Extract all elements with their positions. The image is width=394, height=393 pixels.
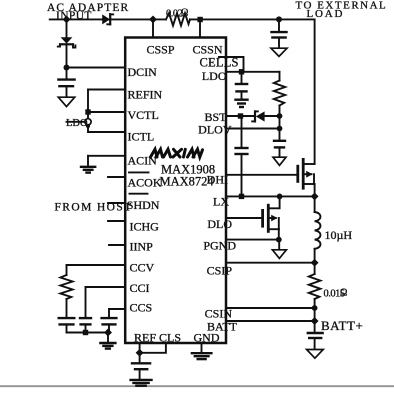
IC pin labels (right) xyxy=(198,69,237,334)
wire: REFIN/VCTL/ICTL tie bar xyxy=(88,90,125,133)
overline ACOK xyxy=(129,171,149,173)
ground (open triangle) below load cap xyxy=(271,48,287,56)
wire: CSIN xyxy=(226,307,315,309)
capacitor C-DLOV xyxy=(273,141,286,157)
capacitor C-REF xyxy=(131,353,152,380)
node: DCIN junction xyxy=(64,65,70,71)
wire: CSIP xyxy=(226,262,315,264)
label TO EXTERNAL LOAD xyxy=(296,0,388,20)
svg-text:ICHG: ICHG xyxy=(130,220,160,234)
svg-text:DCIN: DCIN xyxy=(128,65,158,79)
ground (earth bars) below C-LDO xyxy=(234,100,248,107)
wire: IINP stub xyxy=(109,244,125,246)
wire: CSSP drop xyxy=(152,19,154,37)
node: bus junction CCI xyxy=(83,330,88,335)
svg-text:CCV: CCV xyxy=(130,261,155,275)
node: CSIP junction xyxy=(311,259,319,267)
svg-text:10µH: 10µH xyxy=(325,228,353,242)
ground (open triangle) below C-DCIN xyxy=(58,97,74,106)
svg-text:ICTL: ICTL xyxy=(128,130,155,144)
zener diode D2 xyxy=(58,19,76,67)
ground (earth bars) below bus xyxy=(99,343,116,349)
svg-text:BATT+: BATT+ xyxy=(321,318,363,333)
wire: CCV xyxy=(67,265,126,275)
svg-text:IINP: IINP xyxy=(130,240,154,254)
wire: compensation ground bus xyxy=(67,332,109,334)
node: DLOV junction xyxy=(277,126,283,132)
svg-text:CCS: CCS xyxy=(130,301,153,315)
wire: DLOV xyxy=(226,128,280,130)
resistor R2 0.015 ohm (battery sense) xyxy=(309,263,321,308)
svg-text:SHDN: SHDN xyxy=(127,198,160,212)
page footer rule xyxy=(0,385,394,387)
battery BT1 xyxy=(307,321,324,349)
node: LDO junction xyxy=(239,69,244,74)
node: load filter cap junction xyxy=(276,16,282,22)
svg-text:REFIN: REFIN xyxy=(128,88,163,102)
wire: ACOK stub xyxy=(108,176,125,178)
transistor Q2 (low-side n-FET) xyxy=(263,204,279,240)
diode D3 (BST) xyxy=(252,111,279,121)
node: diode-resistor junction xyxy=(277,113,283,119)
resistor R-CCV xyxy=(60,275,72,299)
wire: Q2 drain drop xyxy=(268,196,279,208)
svg-text:MAX8724: MAX8724 xyxy=(160,175,215,189)
node: PGND junction xyxy=(276,237,282,243)
wire: top rail from AC adapter input xyxy=(50,18,315,20)
IC pin labels (left) xyxy=(127,43,223,315)
svg-text:FROM HOST: FROM HOST xyxy=(55,202,133,214)
ground (open triangle) below PGND xyxy=(272,250,286,259)
ground (earth bars) below GND pin xyxy=(191,353,213,359)
node: bus junction CCS xyxy=(104,329,112,337)
node: LX / Q2 drain junction xyxy=(277,194,283,200)
node: BATT junction xyxy=(311,317,319,325)
svg-text:LDO: LDO xyxy=(202,69,227,83)
capacitor C-load xyxy=(270,19,287,48)
wire: REF pin drop xyxy=(139,343,141,353)
capacitor C-BST (bootstrap) xyxy=(234,116,248,196)
svg-text:REF CLS: REF CLS xyxy=(134,331,181,345)
capacitor C-CCV xyxy=(58,299,76,333)
wire: CLS pin drop xyxy=(140,343,166,353)
svg-text:ACOK: ACOK xyxy=(128,176,162,190)
wire: ICHG stub xyxy=(108,220,125,222)
IC pin labels (bottom) xyxy=(134,331,220,345)
node: adapter junction xyxy=(63,15,71,23)
wire: CSSN drop xyxy=(199,19,201,37)
svg-text:CSIP: CSIP xyxy=(207,264,233,278)
transistor Q1 (high-side n-FET) xyxy=(298,158,315,196)
label LDO (net) xyxy=(66,118,88,129)
node: LX / inductor junction xyxy=(311,192,319,200)
wire: LDO rail xyxy=(226,71,280,73)
wire: PGND xyxy=(226,239,280,241)
wire: GND pin drop xyxy=(201,343,203,353)
node: REF/CLS junction xyxy=(136,349,144,357)
wire: BST node down to DLOV cap xyxy=(279,116,281,141)
svg-text:Ω: Ω xyxy=(181,8,188,19)
svg-text:Ω: Ω xyxy=(340,288,347,299)
wire: BATT xyxy=(226,320,315,322)
svg-text:CSSN: CSSN xyxy=(193,43,223,57)
ground (open triangle) below C-DLOV xyxy=(273,157,286,165)
svg-text:LDO: LDO xyxy=(66,118,88,129)
wire: ACIN to ground xyxy=(88,156,125,167)
wire: load rail drop to Q1 drain xyxy=(314,19,316,164)
resistor R-LDO xyxy=(274,72,285,116)
wire: DLO to Q2 gate xyxy=(226,217,263,219)
wire: bus ground stub xyxy=(107,333,109,343)
wire: CCI xyxy=(86,287,126,318)
svg-text:CCI: CCI xyxy=(130,281,150,295)
svg-text:CELLS: CELLS xyxy=(200,56,239,70)
node: CSIN junction xyxy=(312,305,318,311)
svg-text:DLO: DLO xyxy=(207,217,232,231)
ground (open triangle) below battery xyxy=(307,350,324,359)
svg-text:VCTL: VCTL xyxy=(128,108,159,122)
capacitor C-DCIN xyxy=(57,68,76,98)
wire: CELLS xyxy=(219,57,244,72)
wire: CSIN to BATT xyxy=(314,308,316,321)
svg-text:DLOV: DLOV xyxy=(198,123,232,137)
node: CSSP junction xyxy=(149,15,157,23)
label AC ADAPTER INPUT xyxy=(47,2,129,22)
svg-text:PGND: PGND xyxy=(203,239,236,253)
svg-text:INPUT: INPUT xyxy=(56,10,92,22)
capacitor C-LDO xyxy=(235,72,249,100)
overline SHDN xyxy=(130,193,148,195)
svg-text:LOAD: LOAD xyxy=(307,8,345,20)
wire: LX xyxy=(226,195,315,197)
node LDO terminal circle xyxy=(85,119,91,125)
capacitor C-CCI xyxy=(79,318,92,332)
node: LX / BST cap junction xyxy=(239,194,244,199)
wire: DCIN xyxy=(67,67,126,69)
ground (earth bars) at ACIN xyxy=(80,167,97,173)
svg-text:CSSP: CSSP xyxy=(147,43,175,57)
node: CSSN junction xyxy=(197,17,202,22)
wire: BST xyxy=(226,115,254,117)
capacitor C-CCS xyxy=(100,318,117,332)
inductor L1 10uH xyxy=(315,196,321,262)
node: BST junction xyxy=(238,113,243,118)
wire: PGND ground stub xyxy=(278,240,280,250)
wire: DHI to Q1 gate xyxy=(226,174,298,176)
IC U1 MAX1908/MAX8724 box xyxy=(125,38,226,344)
ground (earth bars) below C-REF xyxy=(129,380,152,386)
wire: CCS xyxy=(109,309,125,318)
MAXIM logo xyxy=(151,149,203,157)
node: VCTL junction xyxy=(85,109,90,114)
wire: SHDN stub xyxy=(108,202,125,204)
diode D1 (input Schottky) xyxy=(102,14,113,24)
resistor R1 0.02 ohm (input sense) xyxy=(166,13,190,25)
